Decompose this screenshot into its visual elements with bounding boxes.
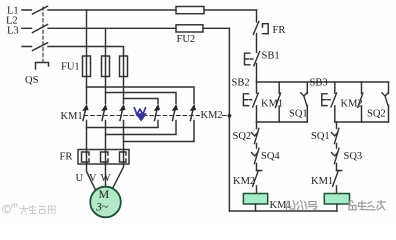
control right rail top xyxy=(256,10,258,22)
wire KM1 aux down xyxy=(278,106,280,122)
wire bottom bus2 xyxy=(229,210,337,212)
wire SQ1-SQ3 xyxy=(336,144,338,149)
limit switch SQ1 NO blade xyxy=(301,93,307,106)
relay FR control contact bracket xyxy=(263,24,269,34)
wire SQ4-KM2 xyxy=(256,164,258,171)
relay FR heater wires through xyxy=(87,150,124,165)
relay FR heater element 3 xyxy=(120,152,127,162)
control rail FR to SB1 xyxy=(256,34,258,53)
button SB2 actuator xyxy=(243,94,251,106)
svg-text:U: U xyxy=(76,173,84,184)
wire SQ1 down xyxy=(306,105,308,122)
wire left control rail xyxy=(228,28,230,211)
button SB1 blade xyxy=(254,52,260,66)
wire KM2 output2 join xyxy=(106,121,177,135)
wire KM1 outputs down xyxy=(87,121,124,150)
wire node line right group xyxy=(335,121,389,123)
svg-text:KM1: KM1 xyxy=(61,111,83,122)
wire KM1 to coil KM2 xyxy=(336,186,338,194)
svg-text:QS: QS xyxy=(25,75,39,86)
motor M circle xyxy=(90,187,121,218)
switch QS linkage dashed xyxy=(42,7,44,62)
switch QS pole 1 blade xyxy=(33,6,48,14)
fuse FU1 pole1 xyxy=(83,56,91,77)
wire SB2 down xyxy=(256,106,258,122)
svg-text:3~: 3~ xyxy=(95,202,109,214)
svg-text:FU2: FU2 xyxy=(177,34,196,45)
contactor KM1 main contacts xyxy=(83,107,123,121)
contactor KM2 aux drop xyxy=(361,82,363,94)
button SB3 drop xyxy=(334,82,336,93)
limit switch SQ3 blade xyxy=(332,148,339,163)
wire right chain top xyxy=(336,122,338,129)
wire branch phase2 to KM2 xyxy=(106,93,177,104)
junction dot on left control rail xyxy=(228,114,232,118)
limit switch SQ1 NO drop xyxy=(306,82,308,93)
wire node line left group xyxy=(257,121,308,123)
button SB2 drop xyxy=(256,82,258,93)
svg-text:KM2: KM2 xyxy=(233,176,255,187)
wire branch phase3 to KM2 xyxy=(124,99,159,104)
svg-text:KM2: KM2 xyxy=(201,110,223,121)
limit switch SQ1 NC blade xyxy=(332,128,339,143)
svg-text:SQ3: SQ3 xyxy=(344,151,363,162)
wire KM2 aux down xyxy=(361,106,363,122)
svg-text:W: W xyxy=(101,173,111,184)
wire FU1 outputs down to KM1 contacts xyxy=(87,77,124,104)
wire coil KM2 to bus2 xyxy=(336,204,338,211)
contactor KM1 aux blade xyxy=(275,93,280,108)
wire control bus1 xyxy=(257,81,389,83)
limit switch SQ4 blade xyxy=(252,148,259,163)
wire SQ3-KM1 xyxy=(336,164,338,171)
button SB1 actuator xyxy=(245,53,253,65)
button SB3 blade xyxy=(331,93,337,107)
contactor KM1 interlock blade xyxy=(333,171,342,187)
svg-text:SB1: SB1 xyxy=(262,51,280,62)
svg-text:SQ1: SQ1 xyxy=(289,109,308,120)
wire motor lead U xyxy=(87,164,96,190)
contactor KM1 aux contact drop xyxy=(278,82,280,94)
wire motor lead V xyxy=(105,164,107,187)
relay FR heater element 2 xyxy=(101,152,109,162)
svg-text:FR: FR xyxy=(273,25,286,36)
watermark blue triangle W xyxy=(134,108,147,122)
switch QS handle xyxy=(36,63,49,70)
svg-text:FU1: FU1 xyxy=(61,62,80,73)
fuse FU2a xyxy=(176,7,204,14)
wire L1 phase xyxy=(22,9,257,11)
svg-text:SQ1: SQ1 xyxy=(311,131,330,142)
wire SQ2 down xyxy=(388,105,390,122)
wire KM2 output1 join xyxy=(87,121,159,128)
wire left chain top xyxy=(256,122,258,129)
contactor KM2 aux blade xyxy=(358,93,363,108)
wire coil KM1 to bus2 xyxy=(255,204,257,211)
fuse FU1 internal wires xyxy=(87,56,124,77)
relay FR heater element 1 xyxy=(82,152,90,162)
svg-text:SQ4: SQ4 xyxy=(261,151,280,162)
contactor KM2 main contacts xyxy=(155,107,194,121)
svg-text:L3: L3 xyxy=(7,26,19,37)
wire KM2 output3 join xyxy=(124,121,195,142)
svg-text:KM1: KM1 xyxy=(311,176,333,187)
svg-text:M: M xyxy=(99,187,110,201)
relay FR heater box xyxy=(78,150,129,165)
coil KM1 xyxy=(243,194,267,205)
linkage dashed KM1-KM2 xyxy=(84,115,227,117)
button SB2 blade xyxy=(253,93,259,107)
contactor KM2 interlock blade xyxy=(253,171,262,187)
fuse FU1 pole3 xyxy=(120,56,128,77)
watermark grey public account text xyxy=(287,201,386,210)
wire L2 phase xyxy=(22,27,229,29)
wire SB3 down xyxy=(334,106,336,122)
limit switch SQ2 NO drop xyxy=(388,82,390,93)
wire L1 drop to FU1 xyxy=(86,10,88,56)
watermark grey bottom-left xyxy=(3,204,56,214)
limit switch SQ2 NC blade xyxy=(252,128,259,143)
wire branch phase1 to KM2 xyxy=(87,87,195,104)
wire L3 phase xyxy=(22,47,124,57)
switch QS pole 2 blade xyxy=(33,25,48,33)
svg-text:FR: FR xyxy=(60,152,73,163)
wire L2 drop to FU1 xyxy=(105,28,107,56)
coil KM2 xyxy=(324,194,349,205)
fuse FU2b xyxy=(176,25,203,32)
switch QS pole 3 blade xyxy=(33,43,48,51)
relay FR control contact blade xyxy=(253,22,258,35)
svg-text:SB2: SB2 xyxy=(232,78,250,89)
svg-text:SQ2: SQ2 xyxy=(367,109,386,120)
svg-text:SQ2: SQ2 xyxy=(233,131,252,142)
wire motor lead W xyxy=(112,164,124,190)
svg-text:V: V xyxy=(89,173,97,184)
svg-text:SB3: SB3 xyxy=(310,78,328,89)
wire KM2 to coil KM1 xyxy=(256,186,258,194)
button SB3 actuator xyxy=(322,94,330,106)
wire SQ2-SQ4 xyxy=(256,144,258,149)
control rail SB1 to bus xyxy=(256,64,258,83)
limit switch SQ2 NO blade xyxy=(382,93,388,106)
fuse FU1 pole2 xyxy=(102,56,110,77)
